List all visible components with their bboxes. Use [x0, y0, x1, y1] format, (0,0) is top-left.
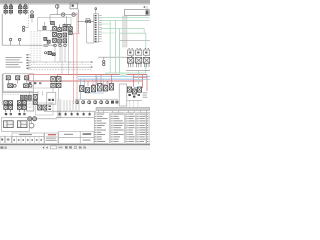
pilot group internal wires: [7, 80, 9, 84]
inline check valves CV2 CV3: [86, 21, 88, 23]
legend notice box with red title: [45, 133, 58, 143]
bus wire 2 dashed: [28, 64, 92, 66]
cab white panel: [119, 84, 127, 106]
gear pump GP2: [43, 105, 47, 110]
parts list table column 5: [147, 113, 150, 144]
manifold enclosure box bottom edge: [2, 44, 55, 46]
valve drop wires to bus: [54, 47, 56, 62]
green can-bus wire 3: [101, 28, 144, 30]
status bar left icons: [0, 146, 3, 148]
solenoid valve group SV1 upper valves: [4, 6, 7, 9]
status bar page nav icons: [43, 146, 45, 148]
pump riser band: [57, 100, 61, 118]
red jog segment right: [134, 76, 147, 78]
delivery header wire: [77, 21, 96, 23]
arm valve V11: [85, 88, 89, 93]
bus end junction marks: [91, 61, 93, 62]
pressure gauge G1: [9, 38, 11, 40]
left frame wire: [1, 74, 3, 105]
parts list table column 2: [111, 113, 124, 144]
red drop wire right 2: [146, 75, 148, 91]
aux block marks: [111, 101, 114, 104]
green stub x144: [143, 29, 145, 34]
relay K3 terminal pins: [144, 63, 146, 67]
sub drop wires: [28, 91, 30, 95]
blue branch wires: [96, 77, 98, 84]
red drop wire right 1: [141, 75, 143, 88]
relief valve RV1: [55, 5, 59, 9]
travel valve bank TB1 lower pair: [4, 105, 8, 109]
pale red pump line A: [72, 33, 74, 104]
terminal strip housing: [94, 14, 99, 42]
red pilot rail lower: [28, 80, 142, 82]
cluster right wire: [68, 27, 70, 45]
hydraulic cylinder CYL2: [17, 121, 27, 128]
hydraulic cylinder CYL1: [4, 121, 14, 128]
valve stack solenoid pins: [54, 24, 56, 27]
relief valve drop wire: [56, 8, 58, 14]
notes text block: [6, 56, 22, 59]
check valve CV1: [31, 11, 34, 14]
dashed pilot line vertical: [28, 5, 30, 27]
junction block JB2: [52, 53, 55, 56]
control dashed enclosure: [38, 17, 71, 30]
relay K3 upper: [144, 50, 150, 55]
parts list table column 3: [126, 113, 135, 144]
gear pump GP1: [38, 105, 42, 110]
blue jog segment right: [133, 78, 150, 80]
drain collector wire: [56, 117, 96, 119]
parts list table column 4: [137, 113, 146, 144]
pale red pump line B: [76, 12, 78, 104]
power unit box: [70, 3, 78, 9]
blue link wire: [88, 87, 112, 89]
mid white box: [47, 92, 56, 104]
accumulator ACC1: [43, 26, 46, 29]
pale red crossover: [73, 32, 80, 34]
bucket valve V12: [91, 86, 95, 92]
right cluster dashed drops: [129, 101, 131, 110]
cylinder enclosure box: [2, 118, 30, 132]
spring return valve QA: [68, 27, 72, 30]
relay K3 lower contact block: [143, 57, 149, 63]
blue return rail upper: [78, 76, 150, 78]
green riser x115: [114, 21, 116, 73]
shuttle valve SH2: [24, 84, 29, 88]
blue return rail lower: [78, 78, 133, 80]
valve drop wires to pilot rail: [61, 45, 63, 74]
status bar zoom icons: [65, 146, 68, 148]
cluster bottom bus: [75, 98, 118, 100]
pump sensor marks: [48, 105, 51, 107]
pump circle P1: [62, 13, 65, 16]
pilot valve PV4: [25, 76, 29, 80]
pump riser wire: [49, 15, 51, 22]
travel valve bank TB2 upper pair: [17, 101, 21, 105]
main control valve stack column 3: [63, 27, 67, 31]
engine harness wire with arrow: [98, 56, 131, 58]
solenoid valve group SV1 pilot circles: [5, 4, 7, 6]
pump outlet wire: [37, 118, 57, 120]
red internal riser: [56, 75, 58, 81]
symbol legend header: [12, 133, 44, 137]
main riser wire right: [78, 9, 80, 33]
green can-bus wire 1: [101, 17, 150, 19]
pilot valve group enclosure: [3, 74, 33, 91]
green controller outline: [120, 33, 146, 73]
pressure sensor PS1: [103, 60, 105, 62]
red cluster drops: [95, 75, 97, 84]
viewer top gray bar: [0, 0, 150, 4]
right cluster base wire: [126, 99, 142, 101]
sub enclosure contacts: [29, 82, 31, 84]
green relay pad: [138, 61, 141, 64]
red branch wires: [87, 81, 89, 86]
bus wire 1: [28, 61, 92, 63]
legend small box B: [5, 136, 11, 143]
pilot valve PV1: [51, 21, 55, 24]
travel valve bank TB1 ticks: [5, 109, 7, 112]
main pump M1 circles: [28, 117, 32, 121]
bus junction ticks: [33, 62, 35, 63]
strip top pigtails: [95, 10, 97, 14]
boom valve V10: [80, 86, 84, 92]
junction block JB1: [48, 51, 51, 54]
mid box contacts: [48, 99, 50, 101]
shuttle valve SH1: [8, 84, 13, 88]
relay K2 lower contact block: [135, 57, 141, 63]
monitor panel connector glyph: [146, 10, 149, 14]
right cluster labels: [143, 91, 148, 94]
title block lower-left cell: [59, 138, 81, 144]
pilot header wire: [2, 91, 38, 93]
travel valve bank TB1 upper pair: [4, 101, 8, 105]
filter F1 pilot wire: [25, 27, 29, 29]
relay K1 terminal pins: [128, 63, 130, 67]
pilot valve PV2: [6, 76, 10, 80]
solenoid valve group SV1 stems: [5, 9, 7, 11]
green riser x119: [119, 29, 121, 73]
harness duct band: [96, 107, 150, 110]
solenoid trio: [21, 95, 24, 100]
terminal strip lead-in wire: [86, 20, 88, 43]
travel valve bank TB2 lower pair: [17, 105, 21, 109]
pilot header dashed wire: [2, 93, 38, 95]
solenoid valve group SV2 pilot circles: [19, 4, 21, 6]
return bus wire: [44, 110, 96, 112]
solenoid valve group SV2 lower valves: [19, 10, 22, 13]
pressure gauge G2: [18, 38, 20, 40]
pump circle P2: [72, 13, 75, 16]
symbol legend cells: [12, 137, 44, 144]
main pump group cluster: [51, 77, 56, 82]
viewer background sheet: [0, 0, 150, 150]
monitor panel box: [125, 9, 150, 15]
duct drop wires: [98, 111, 100, 113]
valve block V20: [127, 87, 131, 92]
red pilot rail upper: [57, 74, 147, 76]
return riser wires: [63, 100, 65, 111]
hydraulic tank T1: [27, 101, 34, 111]
electric motor M circle: [29, 123, 34, 128]
pump dashed enclosure: [36, 103, 53, 115]
connector box trunk: [123, 16, 127, 47]
manifold enclosure box left edge: [1, 14, 3, 45]
vertical dashed pilot wires: [30, 31, 32, 62]
pilot valve PV3: [16, 76, 20, 80]
title block left cell: [59, 132, 81, 138]
solenoid valve group SV2 upper valves: [19, 6, 22, 9]
solenoid valve group SV2 stems: [19, 9, 21, 11]
cluster bus wire: [50, 30, 68, 32]
monitor panel pigtail: [144, 6, 146, 8]
green riser x110: [109, 21, 111, 73]
title block lower-right cell: [80, 138, 94, 144]
cluster label text rows: [44, 43, 49, 46]
green drop to relay: [137, 71, 139, 84]
cab harness wire: [120, 40, 150, 42]
travel valve bank TB2 ticks: [18, 109, 20, 112]
counterbalance valve CB2: [18, 113, 20, 115]
pump drop wire: [31, 121, 33, 123]
legend small box A: [0, 136, 5, 143]
title block part number cell: [80, 132, 94, 138]
green relay pad top: [138, 49, 141, 52]
relay K2 upper: [136, 50, 142, 55]
bus wire 4 dashed: [28, 69, 92, 71]
red pilot box top-left segment: [28, 74, 57, 76]
port check circles row: [76, 101, 79, 104]
terminal stub column: [26, 54, 28, 55]
green can-bus wire 2: [101, 20, 150, 22]
check valve CV1 drop wire: [31, 17, 33, 22]
sensor pair S1 S2: [63, 24, 66, 27]
viewer bottom separator line: [0, 144, 150, 145]
swing valve V13: [97, 84, 102, 91]
blue connector glyph: [134, 88, 139, 91]
valve block V21: [132, 89, 136, 94]
filter F1: [22, 26, 24, 28]
parts list table column 1: [94, 113, 109, 144]
counterbalance valve CB1: [5, 113, 7, 115]
red drop wire mid: [133, 75, 135, 87]
pump unit P1 supply wire: [57, 5, 59, 9]
blue drop wires: [80, 79, 82, 99]
valve block V22: [137, 87, 141, 92]
relay bank base line: [126, 70, 150, 72]
sensor label text: [63, 28, 69, 31]
drain stubs: [59, 111, 61, 113]
green pale pad: [120, 73, 127, 76]
pump suction header: [50, 14, 78, 16]
red pilot box left edge: [27, 75, 29, 81]
green stubs to strip: [99, 23, 111, 25]
pump group drops: [52, 88, 54, 100]
solenoid valve group SV1 lower valves: [4, 10, 7, 13]
main control valve stack column 1: [53, 27, 57, 31]
right cluster lower contacts: [128, 94, 130, 96]
port circles under stack: [54, 44, 57, 47]
relay K2 terminal pins: [136, 63, 138, 67]
sub enclosure: [27, 81, 55, 88]
selector valve block: [33, 95, 37, 100]
relay K1 lower contact block: [127, 57, 133, 63]
main control valve stack column 2: [58, 28, 62, 32]
relay K1 upper: [128, 50, 134, 55]
bus wire 3: [28, 66, 92, 68]
travel valve V15: [109, 84, 113, 90]
viewer bottom status bar: [0, 145, 150, 150]
branch wire vertical: [66, 16, 68, 27]
aux valve V14: [104, 86, 108, 91]
green bottom link: [105, 72, 120, 74]
pilot blobs left: [44, 37, 47, 40]
terminal strip contacts: [95, 15, 97, 16]
